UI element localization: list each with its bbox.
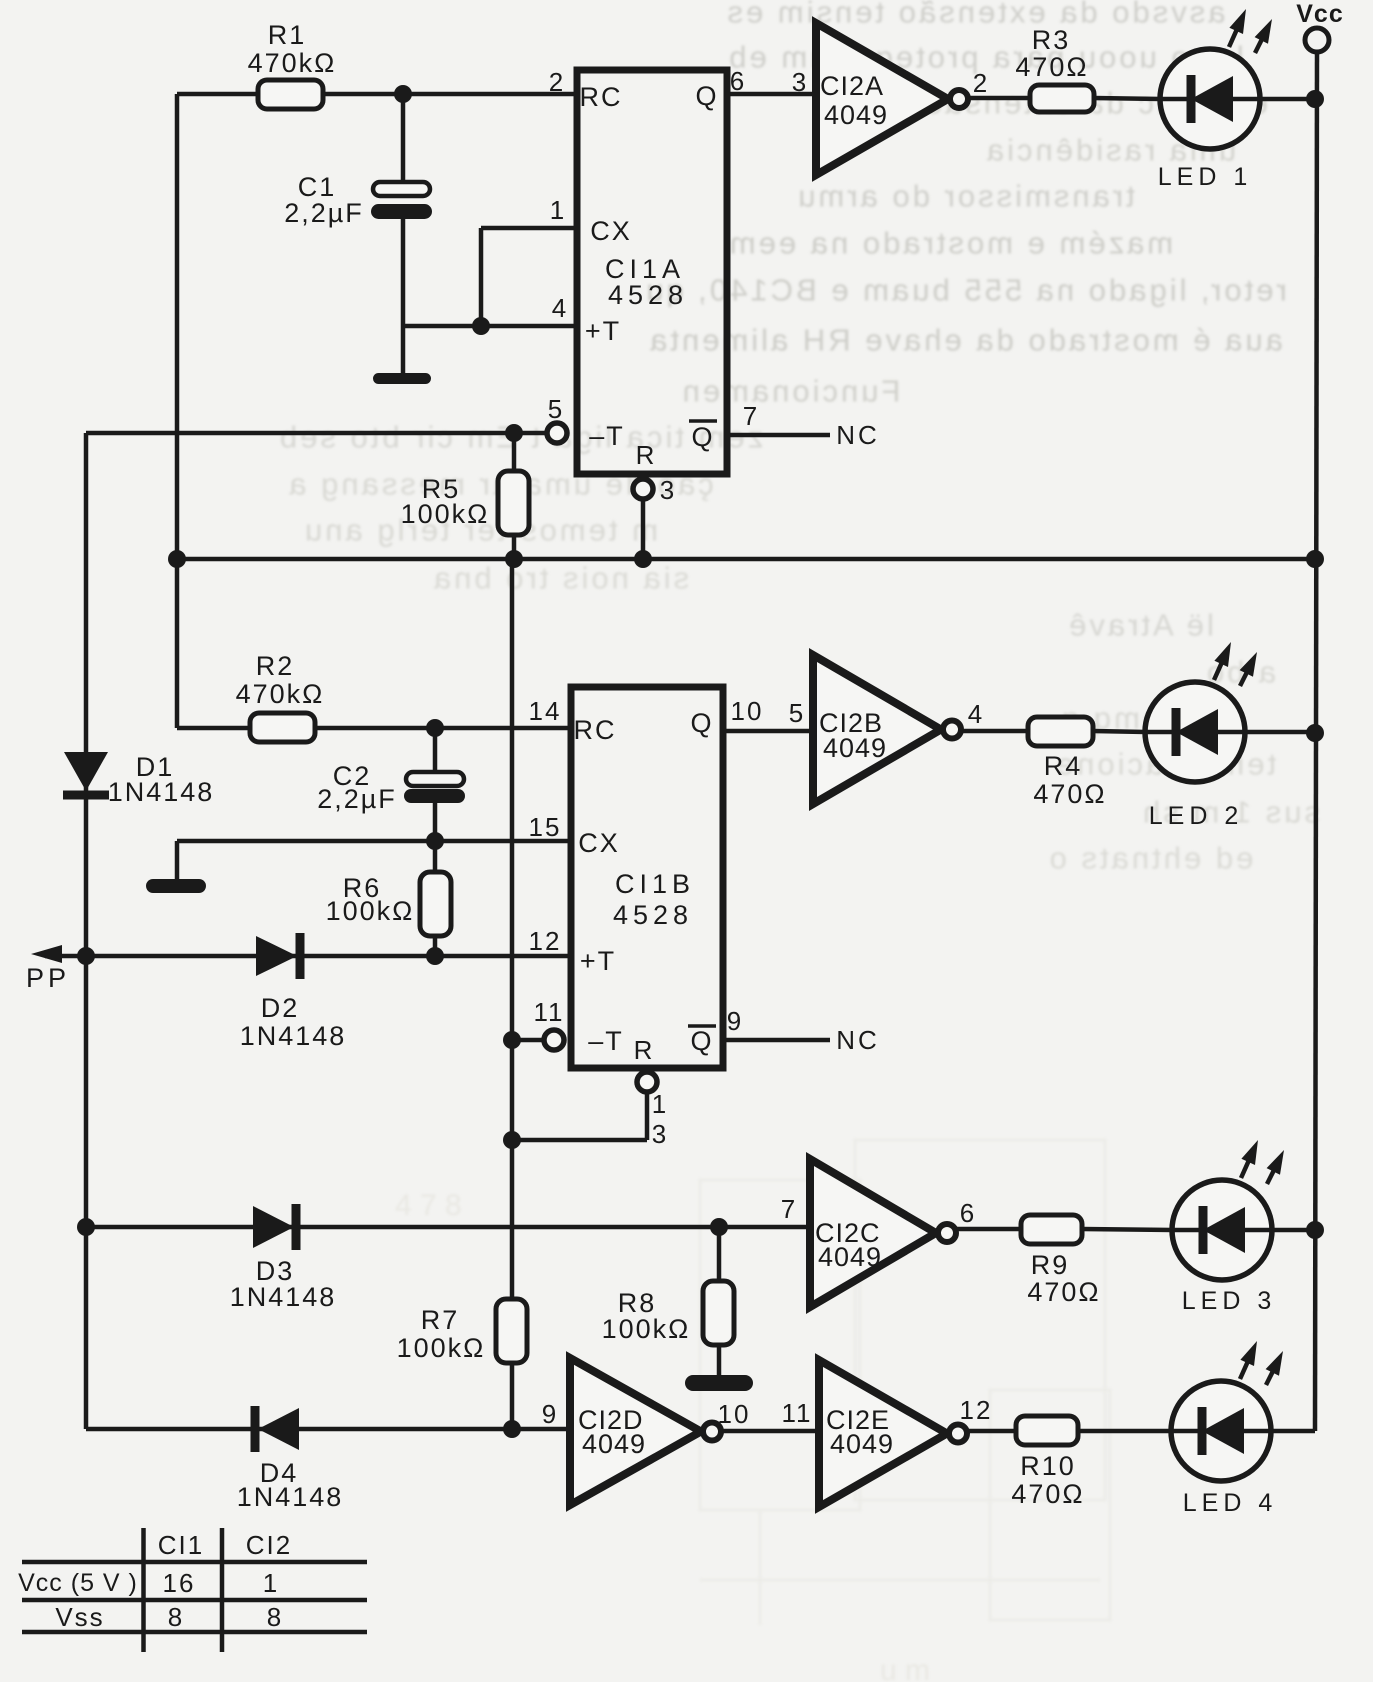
bubble: R pin CI1B (637, 1072, 657, 1092)
svg-text:2,2µF: 2,2µF (317, 784, 397, 814)
svg-text:NC: NC (836, 1025, 880, 1055)
svg-text:CI1B: CI1B (615, 869, 695, 899)
svg-text:10: 10 (731, 696, 764, 726)
resistor R3 (1030, 85, 1094, 112)
resistor R1 (258, 80, 323, 109)
wire: CI2B out to R4 (962, 729, 1028, 734)
svg-text:CI2A: CI2A (820, 71, 884, 101)
LED3 (1172, 1180, 1272, 1280)
svg-text:9: 9 (542, 1399, 558, 1429)
svg-text:asvsdo da extensão tensim es: asvsdo da extensão tensim es (724, 0, 1225, 30)
wire: LED1 to Vcc rail (1259, 97, 1315, 102)
svg-text:LED 3: LED 3 (1182, 1287, 1276, 1315)
inverter CI2C 4049 (810, 1159, 936, 1307)
svg-text:PP: PP (26, 963, 70, 993)
junction: PP at x=86 (77, 947, 95, 965)
svg-text:u m: u m (880, 1654, 930, 1682)
junction: +T/CX node CI1A (472, 317, 490, 335)
svg-text:1N4148: 1N4148 (108, 777, 215, 807)
svg-text:Vss: Vss (55, 1602, 104, 1632)
svg-text:mazém e mostrado na eem: mazém e mostrado na eem (727, 226, 1173, 261)
svg-text:ed ehtnats o: ed ehtnats o (1047, 841, 1254, 876)
wire: LED4 to Vcc rail corner (1272, 1429, 1315, 1434)
diode D3 1N4148 (253, 1206, 294, 1248)
PP arrow (31, 945, 62, 963)
svg-text:12: 12 (960, 1395, 993, 1425)
resistor R9 (1021, 1215, 1082, 1244)
svg-text:sia nois tro bna: sia nois tro bna (431, 561, 689, 596)
svg-text:100kΩ: 100kΩ (401, 499, 490, 529)
wire: R1 row to CI1A RC pin (177, 92, 577, 97)
svg-text:100kΩ: 100kΩ (326, 896, 415, 926)
svg-text:R4: R4 (1044, 751, 1083, 781)
svg-text:CX: CX (590, 216, 632, 246)
svg-text:NC: NC (836, 420, 880, 450)
svg-text:8: 8 (168, 1602, 184, 1632)
svg-text:1N4148: 1N4148 (237, 1482, 344, 1512)
wire: LED3 to Vcc rail (1271, 1228, 1315, 1233)
wire: D3 row y=1227 (86, 1225, 810, 1230)
capacitor C1 (373, 182, 430, 196)
junction: LED3 at Vcc rail (1306, 1221, 1324, 1239)
junction: C2/CX node (426, 832, 444, 850)
wire: Qbar CI1B to NC (723, 1038, 830, 1043)
svg-text:–T: –T (588, 1026, 624, 1056)
svg-text:+T: +T (585, 316, 621, 346)
resistor R6 (420, 872, 451, 936)
junction: R1/C1 node (394, 85, 412, 103)
svg-text:470Ω: 470Ω (1027, 1277, 1100, 1307)
svg-text:1: 1 (263, 1568, 279, 1598)
bubble: -T input CI1B pin 11 (544, 1030, 564, 1050)
resistor R4 (1028, 717, 1093, 746)
ground: below R8 (685, 1375, 753, 1391)
svg-text:11: 11 (782, 1398, 813, 1428)
wire: +T row CI1A (403, 324, 577, 329)
LED4 (1171, 1381, 1271, 1481)
capacitor C2 (433, 728, 438, 773)
ground: CX net CI1B (175, 841, 180, 880)
svg-text:4049: 4049 (830, 1429, 894, 1459)
svg-text:3: 3 (660, 475, 676, 505)
svg-text:470Ω: 470Ω (1033, 779, 1106, 809)
svg-text:RC: RC (580, 82, 623, 112)
wire: Vcc rail (right bus) (1315, 52, 1317, 1431)
svg-text:4049: 4049 (818, 1242, 882, 1272)
wire: CI2C out to R9 (956, 1227, 1021, 1232)
svg-text:16: 16 (163, 1568, 196, 1598)
svg-text:5: 5 (789, 698, 805, 728)
svg-text:12: 12 (529, 926, 562, 956)
LED1 (1160, 49, 1260, 149)
svg-text:1N4148: 1N4148 (230, 1282, 337, 1312)
wire: -T CI1B stub (512, 1038, 544, 1043)
svg-text:100kΩ: 100kΩ (397, 1333, 486, 1363)
wire: Q CI1B to CI2B (723, 729, 812, 734)
svg-text:14: 14 (529, 696, 562, 726)
svg-text:470kΩ: 470kΩ (236, 679, 325, 709)
junction: bus right at Vcc rail (1306, 550, 1324, 568)
svg-text:–T: –T (589, 421, 625, 451)
svg-text:1: 1 (652, 1089, 668, 1119)
diode D1 1N4148 (64, 752, 108, 791)
svg-text:LED 2: LED 2 (1149, 802, 1243, 830)
svg-text:470kΩ: 470kΩ (248, 48, 337, 78)
svg-text:2,2µF: 2,2µF (284, 198, 364, 228)
svg-text:Q: Q (691, 422, 714, 452)
diode D4 1N4148 (258, 1408, 299, 1450)
svg-text:R1: R1 (268, 20, 307, 50)
svg-text:4528: 4528 (608, 280, 688, 310)
junction: R8 top on D3 row (710, 1218, 728, 1236)
junction: LED1 at Vcc rail (1306, 90, 1324, 108)
svg-text:9: 9 (727, 1006, 743, 1036)
junction: R5 top (505, 424, 523, 442)
resistor R10 (1016, 1416, 1078, 1445)
svg-text:7: 7 (743, 401, 759, 431)
wire: left vertical x=177 (175, 94, 180, 728)
svg-text:5: 5 (548, 394, 564, 424)
svg-text:4 7 8: 4 7 8 (395, 1189, 462, 1222)
junction: bus left (168, 550, 186, 568)
svg-text:6: 6 (960, 1198, 976, 1228)
ground: below C1 (373, 373, 431, 384)
svg-text:11: 11 (534, 997, 565, 1027)
svg-text:lë Atravê: lë Atravê (1066, 608, 1214, 643)
wire: -T row CI1A (86, 431, 547, 436)
resistor R8 (717, 1227, 722, 1281)
wire: CI2E out to R10 (967, 1429, 1016, 1434)
inverter CI2B 4049 (813, 655, 941, 804)
wire: PP row / +T CI1B (45, 954, 571, 959)
junction: -T CI1B (503, 1031, 521, 1049)
junction: D3 row at x=86 (77, 1218, 95, 1236)
svg-text:Funcionamen: Funcionamen (680, 374, 901, 409)
wire: C1 branch (401, 94, 406, 183)
svg-text:RC: RC (574, 715, 617, 745)
svg-text:1: 1 (550, 195, 566, 225)
svg-text:retor, ligado na 555 buam e B: retor, ligado na 555 buam e BC140, qu (643, 273, 1287, 308)
junction: R6 bottom on +T row (426, 947, 444, 965)
LED2 (1145, 682, 1245, 782)
svg-text:6: 6 (730, 66, 746, 96)
wire: LED2 to Vcc rail (1244, 730, 1315, 735)
wire: R2 row (177, 726, 571, 731)
wire: D4 row y=1429 (86, 1427, 570, 1432)
wire: CX row CI1B (177, 839, 571, 844)
svg-text:4528: 4528 (613, 900, 693, 930)
svg-text:Q: Q (690, 708, 713, 738)
wire: left vertical x=86 (84, 433, 89, 1429)
junction: R5 bottom on bus (505, 550, 523, 568)
svg-text:2: 2 (549, 67, 565, 97)
inverter CI2A 4049 (816, 23, 948, 175)
svg-text:8: 8 (267, 1602, 283, 1632)
svg-text:4: 4 (968, 699, 984, 729)
junction: R7 bottom on D4 row (503, 1420, 521, 1438)
svg-text:7: 7 (781, 1194, 797, 1224)
svg-text:470Ω: 470Ω (1015, 52, 1088, 82)
IC box CI1B 4528 (571, 687, 723, 1068)
svg-text:LED 4: LED 4 (1183, 1489, 1277, 1517)
inverter CI2D 4049 (570, 1358, 701, 1505)
resistor R2 (250, 713, 315, 742)
wire: CI2A out to R3 (969, 96, 1030, 101)
wire: Qbar CI1A to NC (727, 433, 830, 438)
wire: R10 to LED4 (1078, 1429, 1172, 1434)
svg-text:CI1: CI1 (158, 1530, 204, 1560)
svg-text:Vcc (5 V ): Vcc (5 V ) (18, 1569, 138, 1597)
svg-text:10: 10 (718, 1399, 751, 1429)
inverter CI2E 4049 (819, 1360, 947, 1507)
svg-text:CI2: CI2 (246, 1530, 292, 1560)
junction: R wire at x=512 (503, 1131, 521, 1149)
svg-text:3: 3 (792, 67, 808, 97)
wire: R3 to LED1 (1094, 98, 1161, 99)
svg-text:+T: +T (580, 946, 616, 976)
junction: R2/C2 node (426, 719, 444, 737)
wire: Q CI1A to CI2A (727, 92, 816, 97)
svg-text:R2: R2 (256, 651, 295, 681)
svg-text:R7: R7 (421, 1305, 460, 1335)
wire: R4 to LED2 (1093, 731, 1146, 732)
bubble: -T input CI1A pin 5 (547, 423, 567, 443)
wire: CI2D out to CI2E (721, 1429, 819, 1434)
svg-text:2: 2 (973, 68, 989, 98)
svg-text:R: R (634, 1035, 655, 1065)
svg-text:470Ω: 470Ω (1011, 1479, 1084, 1509)
junction: R pin CI1A on bus (634, 550, 652, 568)
svg-text:4: 4 (552, 293, 568, 323)
wire: R9 to LED3 (1082, 1229, 1173, 1230)
svg-text:Q: Q (690, 1026, 713, 1056)
svg-text:100kΩ: 100kΩ (602, 1314, 691, 1344)
svg-text:4049: 4049 (582, 1429, 646, 1459)
svg-text:4049: 4049 (823, 733, 887, 763)
svg-text:R9: R9 (1031, 1250, 1070, 1280)
svg-text:R10: R10 (1020, 1451, 1076, 1481)
pin table (22, 1528, 367, 1652)
diode D2 1N4148 (256, 936, 297, 976)
svg-text:Vcc: Vcc (1296, 0, 1343, 28)
svg-text:LED 1: LED 1 (1158, 163, 1252, 191)
wire: R pin CI1B down and left (645, 1092, 650, 1140)
wire: horizontal bus y=559 (177, 557, 1315, 562)
resistor R7 (496, 1299, 527, 1363)
svg-text:aua é mostrado da ehave RH a: aua é mostrado da ehave RH alimenta (647, 323, 1283, 358)
wire: R pin CI1A to bus (641, 499, 646, 559)
svg-text:CX: CX (578, 828, 620, 858)
svg-text:transmissor do armu: transmissor do armu (795, 179, 1135, 214)
wire: CX branch CI1A (479, 228, 484, 326)
svg-text:1N4148: 1N4148 (240, 1021, 347, 1051)
svg-text:R: R (636, 440, 657, 470)
wire: center vertical x=512 (510, 559, 515, 1299)
svg-text:D2: D2 (261, 993, 300, 1023)
svg-text:4049: 4049 (824, 100, 888, 130)
svg-text:Q: Q (695, 81, 718, 111)
bubble: R pin CI1A pin 3 (633, 479, 653, 499)
svg-text:3: 3 (652, 1119, 668, 1149)
svg-text:R3: R3 (1032, 25, 1071, 55)
svg-text:15: 15 (529, 812, 562, 842)
resistor R5 (512, 433, 517, 471)
IC box CI1A 4528 (577, 70, 727, 474)
junction: LED2 at Vcc rail (1306, 724, 1324, 742)
